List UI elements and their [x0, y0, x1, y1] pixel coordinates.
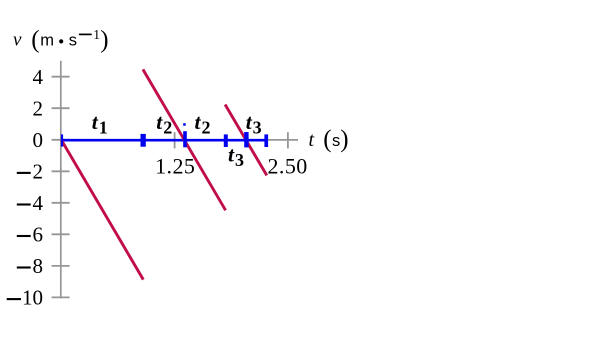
y tick v=-10	[52, 296, 70, 298]
y label -4	[17, 203, 31, 205]
svg-text:4: 4	[33, 65, 44, 89]
y tick v=0	[52, 139, 70, 141]
x tick t=1.25	[174, 132, 176, 148]
y label -8	[17, 266, 31, 268]
svg-text:t: t	[309, 129, 315, 151]
y-axis	[60, 61, 62, 299]
svg-text:2.50: 2.50	[268, 153, 308, 178]
blue tick end	[264, 134, 268, 147]
svg-text:1: 1	[93, 27, 100, 42]
blue dot above apex-2 tick	[183, 123, 186, 126]
svg-text:t3: t3	[228, 142, 244, 170]
y tick v=-8	[52, 265, 70, 267]
blue tick bounce 1	[141, 134, 146, 147]
svg-text:): )	[100, 27, 108, 54]
svg-text:(: (	[323, 126, 331, 153]
crimson velocity segment 2	[143, 69, 226, 210]
y label -2	[17, 172, 31, 174]
y tick v=-6	[52, 233, 70, 235]
svg-text:2: 2	[33, 97, 44, 121]
blue tick apex 2	[183, 131, 187, 147]
y tick v=4	[52, 76, 70, 78]
svg-text:(: (	[31, 27, 39, 54]
x-axis label t (s)	[309, 126, 349, 153]
svg-text:1.25: 1.25	[155, 153, 195, 178]
blue tick apex 3	[244, 132, 248, 147]
blue time baseline	[61, 139, 268, 142]
y label -6	[17, 235, 31, 237]
svg-text:t2: t2	[195, 110, 211, 138]
svg-text:v: v	[13, 30, 22, 51]
svg-text:2: 2	[33, 160, 44, 184]
x tick t=2.50	[287, 132, 289, 148]
svg-text:4: 4	[33, 191, 44, 215]
y tick v=-2	[52, 170, 70, 172]
crimson velocity segment 1	[61, 140, 143, 280]
svg-text:10: 10	[22, 286, 43, 310]
x-axis	[60, 139, 298, 141]
svg-text:m: m	[40, 32, 54, 50]
svg-text:s: s	[332, 132, 340, 150]
crimson velocity segment 3	[225, 105, 267, 176]
svg-text:6: 6	[33, 223, 44, 247]
svg-text:0: 0	[33, 128, 44, 152]
svg-text:): )	[340, 126, 348, 153]
y tick v=-4	[52, 202, 70, 204]
y-axis label v (m.s^-1)	[13, 27, 109, 54]
blue tick t=0	[61, 134, 63, 146]
y tick v=2	[52, 107, 70, 109]
svg-text:t3: t3	[246, 110, 262, 138]
svg-text:8: 8	[33, 254, 44, 278]
svg-text:t1: t1	[92, 110, 108, 138]
y label -10	[7, 298, 21, 300]
svg-text:s: s	[69, 32, 77, 50]
blue tick bounce 2	[224, 134, 228, 147]
